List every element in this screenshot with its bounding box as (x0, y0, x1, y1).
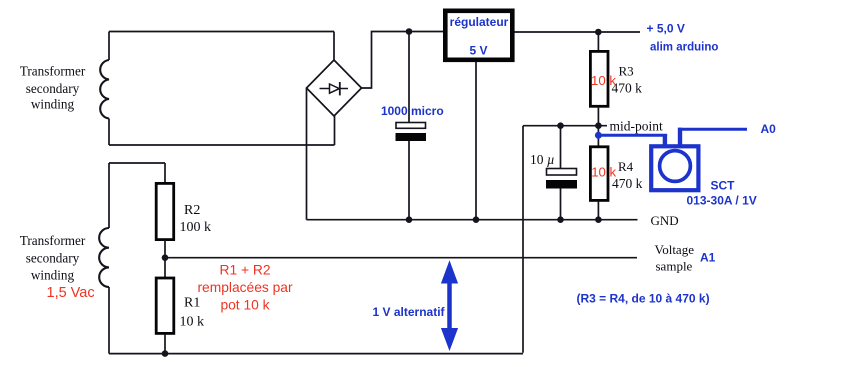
wire ground rail (307, 219, 638, 221)
wire R3 bottom lead to mid-point (597, 107, 599, 147)
wire capacitor C2 top lead (560, 126, 562, 169)
wire loop1 bottom rail (109, 144, 335, 146)
wire R3 top lead (597, 32, 599, 51)
wire bridge right output jog to top rail (362, 32, 444, 89)
svg-text:pot 10 k: pot 10 k (220, 298, 269, 313)
wire regulator ground pin (475, 62, 477, 220)
svg-text:1,5 Vac: 1,5 Vac (47, 285, 95, 301)
wire loop2 left side lower (108, 287, 110, 354)
wire capacitor C1 top lead (408, 32, 410, 123)
svg-text:100 k: 100 k (180, 220, 212, 235)
node junction R1/R2 voltage sample (162, 254, 169, 261)
wire loop1 left side upper (108, 32, 110, 61)
wire loop1 right drop to bridge (333, 32, 335, 61)
wire loop1 top rail (109, 31, 334, 33)
svg-text:régulateur: régulateur (450, 15, 509, 29)
svg-text:+ 5,0 V: + 5,0 V (647, 22, 685, 36)
svg-text:5 V: 5 V (469, 43, 487, 57)
capacitor C2 10u top plate (547, 169, 577, 176)
wire voltage sample rail (165, 257, 637, 259)
svg-text:winding: winding (31, 97, 75, 112)
svg-text:winding: winding (31, 268, 75, 283)
blue node mid-point tap (595, 132, 602, 139)
svg-text:10 k: 10 k (180, 315, 205, 330)
capacitor C2 10u bottom plate (546, 180, 577, 189)
svg-text:R2: R2 (184, 203, 200, 218)
svg-text:10 k: 10 k (591, 164, 616, 179)
wire bridge bottom leg (334, 116, 336, 145)
node junction R1 bottom rail (162, 350, 169, 357)
svg-text:(R3 = R4, de 10 à 470 k): (R3 = R4, de 10 à 470 k) (577, 292, 710, 306)
svg-text:R1: R1 (184, 296, 200, 311)
blue arrow 1V alternatif (441, 260, 458, 351)
node junction mid-point rail / C2 (557, 122, 564, 129)
wire R2/R1 junction (164, 240, 166, 277)
svg-text:secondary: secondary (26, 251, 80, 266)
svg-text:10 k: 10 k (591, 73, 616, 88)
svg-text:013-30A / 1V: 013-30A / 1V (687, 194, 757, 208)
capacitor C1 1000u top plate (396, 123, 426, 129)
svg-text:A0: A0 (761, 122, 777, 136)
resistor R1 body (156, 278, 174, 333)
node junction gnd / C1 (406, 216, 413, 223)
inductor L2 lower transformer winding (99, 228, 109, 287)
node junction output rail / R3 (595, 29, 602, 36)
svg-text:sample: sample (656, 258, 693, 273)
wire R4 bottom lead (597, 201, 599, 220)
node junction gnd / C2 (557, 216, 564, 223)
node mid-point junction (595, 122, 602, 129)
svg-text:R3: R3 (619, 64, 634, 79)
diode symbol cathode bar (339, 82, 341, 95)
svg-text:R1 + R2: R1 + R2 (220, 263, 271, 278)
wire R1 bottom lead (164, 334, 166, 354)
current sensor SCT circle (660, 151, 691, 182)
svg-text:GND: GND (651, 213, 679, 228)
node junction top rail / C1 (406, 28, 413, 35)
wire R2 top lead (164, 163, 166, 183)
svg-text:SCT: SCT (711, 179, 736, 193)
wire regulator output rail (515, 31, 641, 33)
current sensor SCT box (651, 146, 698, 190)
bridge rectifier D1 diamond (307, 60, 362, 116)
svg-text:remplacées par: remplacées par (197, 280, 292, 295)
wire mid-point rail (523, 125, 607, 127)
blue wire SCT right pin to A0 (678, 128, 682, 147)
svg-text:Transformer: Transformer (20, 64, 86, 79)
wire bridge left leg to ground rail (306, 88, 308, 220)
resistor R3 body (590, 51, 608, 106)
svg-text:1000 micro: 1000 micro (381, 104, 444, 118)
svg-text:10 µ: 10 µ (530, 152, 555, 167)
wire loop2 bottom rail (109, 353, 523, 355)
node junction gnd / R4 (595, 216, 602, 223)
wire capacitor C2 bottom lead (560, 189, 562, 220)
svg-text:alim arduino: alim arduino (650, 42, 718, 54)
resistor R4 body (590, 147, 608, 201)
wire mid-point drop to lower loop (522, 126, 524, 353)
svg-text:mid-point: mid-point (610, 119, 663, 134)
svg-text:R4: R4 (618, 159, 634, 174)
diode symbol triangle (330, 84, 340, 93)
wire capacitor C1 bottom lead (408, 141, 410, 220)
svg-text:470 k: 470 k (612, 81, 643, 96)
capacitor C1 1000u bottom plate (396, 133, 427, 141)
resistor R2 body (156, 183, 174, 239)
blue wire mid-point to SCT left pin (598, 134, 667, 137)
svg-text:470 k: 470 k (612, 176, 643, 191)
svg-text:A1: A1 (700, 251, 716, 265)
wire loop2 left side upper (108, 163, 110, 228)
node junction gnd / regulator (473, 216, 480, 223)
svg-text:1 V alternatif: 1 V alternatif (373, 305, 446, 319)
svg-text:Transformer: Transformer (20, 233, 86, 248)
wire loop2 top rail (109, 162, 165, 164)
wire loop1 left side lower (108, 119, 110, 146)
regulator U1 box (445, 11, 512, 60)
svg-text:Voltage: Voltage (655, 242, 695, 257)
inductor L1 upper transformer winding (100, 60, 109, 119)
diode symbol line (320, 88, 349, 90)
svg-text:secondary: secondary (26, 81, 80, 96)
